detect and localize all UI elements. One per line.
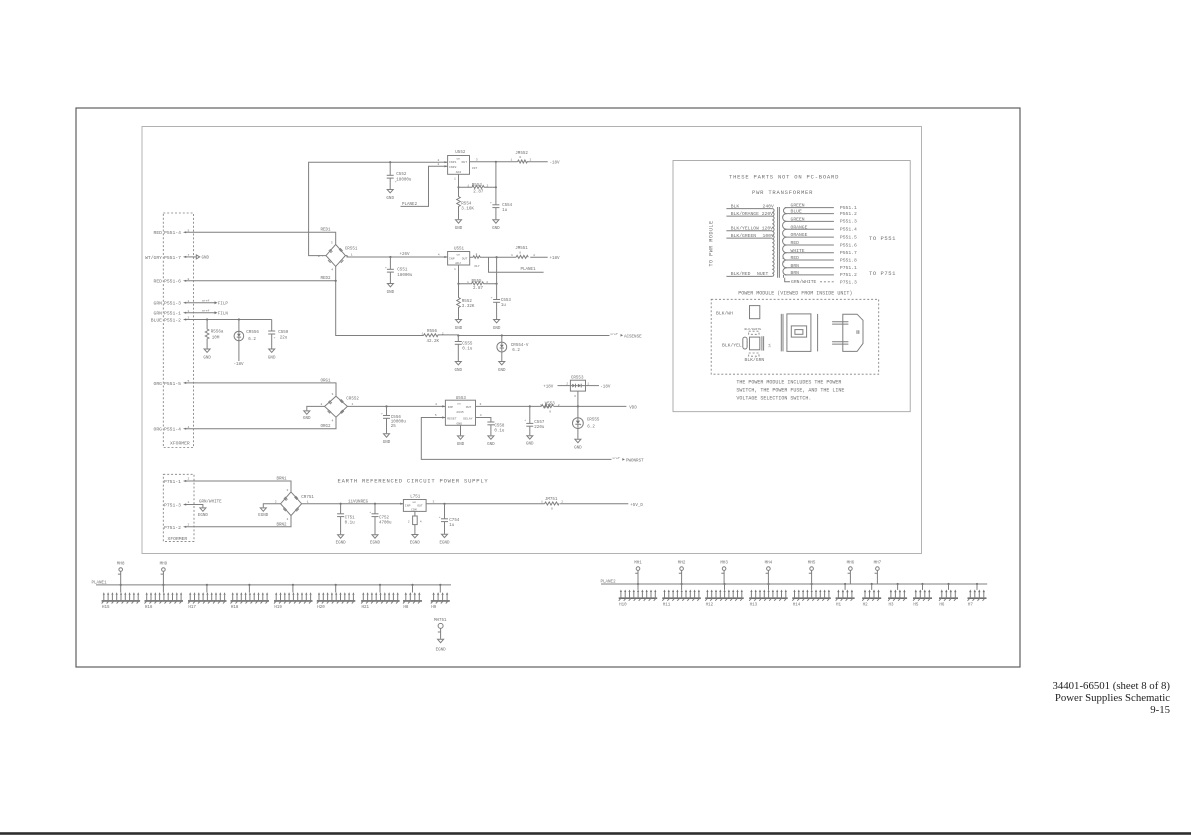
svg-text:2: 2 [486, 280, 488, 284]
svg-text:3: 3 [476, 157, 478, 161]
wire RED2 [183, 277, 336, 282]
svg-text:1: 1 [540, 403, 542, 407]
svg-text:GND: GND [386, 197, 394, 201]
svg-text:C751: C751 [345, 517, 356, 521]
svg-text:GND: GND [203, 357, 211, 361]
svg-text:MH6: MH6 [847, 562, 855, 566]
hole array H11 [662, 584, 701, 607]
jumper JM551 0 [511, 247, 548, 259]
svg-text:1: 1 [351, 252, 353, 256]
svg-text:VDD: VDD [629, 407, 637, 411]
footer title block text [1052, 680, 1170, 716]
hole array H16 [145, 585, 184, 610]
ground [526, 436, 534, 447]
svg-text:OUT: OUT [417, 504, 423, 508]
regulator U551 [448, 247, 470, 265]
svg-text:H15: H15 [102, 606, 110, 610]
net -18V out [550, 162, 561, 166]
svg-text:P551.2: P551.2 [840, 211, 857, 217]
net PLANE1 rail [92, 582, 452, 586]
svg-text:2: 2 [188, 315, 190, 319]
svg-text:R556a: R556a [211, 331, 224, 335]
svg-text:COM: COM [411, 508, 417, 512]
svg-text:+: + [439, 515, 441, 519]
svg-text:RESET: RESET [447, 417, 456, 421]
capacitor C559 22u [268, 320, 289, 349]
svg-text:RED2: RED2 [321, 277, 332, 281]
svg-text:+18V: +18V [550, 257, 561, 261]
svg-text:C551: C551 [397, 269, 408, 273]
primary tap BLK/RED NUET [726, 271, 772, 277]
svg-text:H18: H18 [231, 606, 239, 610]
svg-text:+: + [524, 418, 526, 422]
capacitor C554 1u [490, 162, 513, 220]
svg-text:ADJ: ADJ [455, 261, 461, 265]
svg-text:CR554-V: CR554-V [511, 344, 529, 348]
svg-text:un: un [457, 402, 461, 406]
svg-text:P551-6: P551-6 [164, 279, 181, 285]
svg-text:EGND: EGND [258, 514, 269, 518]
secondary lead RED P551.8 [785, 255, 857, 263]
power switch block [750, 306, 760, 319]
svg-text:EGND: EGND [410, 541, 421, 545]
pin P551-4b label [154, 425, 190, 433]
svg-text:P551.5: P551.5 [840, 234, 857, 240]
ground [268, 349, 276, 361]
svg-text:18000u: 18000u [396, 178, 412, 182]
svg-text:R553: R553 [472, 184, 483, 188]
earth ground [370, 535, 381, 546]
pin P551-5 label [154, 379, 190, 387]
svg-text:R555: R555 [472, 280, 483, 284]
svg-text:C754: C754 [449, 519, 460, 523]
svg-text:RED1: RED1 [321, 229, 332, 233]
svg-text:H6: H6 [939, 603, 945, 607]
module divider left [781, 314, 783, 352]
svg-text:XFORMER: XFORMER [170, 441, 190, 447]
svg-text:0.1u: 0.1u [462, 348, 473, 352]
hole array H2 [862, 584, 881, 607]
hole array H12 [705, 584, 744, 607]
ground [455, 320, 463, 331]
capacitor C557 220u [524, 406, 545, 435]
L751 COM pin component [408, 511, 422, 534]
svg-text:U553: U553 [456, 397, 467, 401]
svg-text:RED: RED [154, 279, 163, 285]
svg-text:U551: U551 [454, 247, 465, 251]
svg-text:+18V: +18V [543, 385, 554, 389]
svg-text:INP: INP [449, 256, 455, 260]
svg-text:1u: 1u [449, 524, 455, 528]
svg-text:4: 4 [480, 413, 482, 417]
svg-text:0: 0 [551, 507, 553, 511]
secondary lead GREEN P551.3 [785, 216, 857, 224]
bridge rectifier CR552 [321, 392, 360, 423]
svg-text:EGND: EGND [336, 541, 347, 545]
svg-text:MH751: MH751 [434, 619, 447, 623]
svg-text:JM751: JM751 [545, 498, 558, 502]
svg-text:3: 3 [331, 240, 333, 244]
power module note text [736, 380, 844, 402]
svg-text:vref: vref [610, 332, 618, 336]
svg-text:H20: H20 [317, 606, 325, 610]
svg-text:1: 1 [467, 184, 469, 188]
svg-text:H1: H1 [836, 603, 842, 607]
svg-text:BLK/YEL: BLK/YEL [722, 343, 742, 349]
ground [498, 362, 506, 373]
secondary lead RED P551.6 [785, 240, 857, 248]
svg-text:CR555: CR555 [587, 419, 600, 423]
mounting hole MH8 [117, 563, 125, 585]
svg-text:FILN: FILN [218, 313, 229, 317]
svg-text:WT/GRY: WT/GRY [145, 255, 162, 261]
zener CR556 6.2 [234, 320, 259, 362]
svg-text:CR552: CR552 [346, 397, 359, 401]
secondary lead BRN P751.2 [785, 270, 857, 278]
wire FILN [183, 308, 228, 316]
svg-text:TO PWR MODULE: TO PWR MODULE [709, 220, 715, 266]
svg-text:H9: H9 [431, 606, 437, 610]
selector side bars [762, 336, 764, 350]
selector capsule [743, 337, 747, 349]
mounting hole MH751 to earth ground [434, 619, 447, 652]
bridge rectifier CR751 [275, 488, 315, 521]
svg-text:6.2: 6.2 [248, 338, 256, 342]
svg-text:1: 1 [467, 280, 469, 284]
wire top rail into U552 [389, 158, 448, 163]
svg-text:MH1: MH1 [634, 562, 642, 566]
svg-text:H7: H7 [968, 603, 974, 607]
ground [457, 436, 465, 447]
hole array H14 [792, 584, 831, 607]
svg-text:BLUE: BLUE [151, 318, 162, 324]
capacitor C752 4700u [369, 504, 392, 535]
svg-text:H2: H2 [863, 603, 869, 607]
svg-text:P751-3: P751-3 [164, 503, 181, 509]
svg-text:EGND: EGND [439, 541, 450, 545]
svg-text:P751.3: P751.3 [840, 280, 857, 286]
svg-text:-18V: -18V [234, 363, 245, 367]
wire to chassis GND arrow [183, 255, 210, 261]
pin P551-1 label [154, 309, 190, 317]
net +18V out [550, 257, 561, 261]
svg-text:P551-4: P551-4 [164, 427, 181, 433]
svg-text:OUT: OUT [462, 256, 468, 260]
secondary winding [783, 208, 787, 278]
jumper JM751 0 [541, 498, 628, 510]
svg-text:ACSENSE: ACSENSE [624, 335, 642, 339]
wire BRN1 [183, 478, 291, 492]
svg-text:1u: 1u [502, 209, 508, 213]
earth ground [410, 535, 421, 546]
svg-text:GND: GND [457, 422, 463, 426]
svg-text:1: 1 [454, 267, 456, 271]
svg-text:2.87: 2.87 [473, 287, 484, 291]
svg-text:GND: GND [383, 441, 391, 445]
svg-text:L751: L751 [410, 496, 421, 500]
svg-text:+26V: +26V [400, 253, 411, 257]
svg-text:2: 2 [275, 500, 277, 504]
hole array H5 [913, 584, 932, 607]
svg-text:Power Supplies Schematic: Power Supplies Schematic [1055, 692, 1170, 704]
wire bridge plus to U551 INP [345, 253, 447, 258]
net VDD [629, 407, 637, 411]
svg-text:THE POWER MODULE INCLUDES THE: THE POWER MODULE INCLUDES THE POWER [736, 380, 841, 386]
earth ground [439, 534, 450, 545]
transformer T551 heading [709, 189, 814, 266]
primary tap BLK/YELLOW 120V [726, 226, 773, 232]
svg-text:P551.8: P551.8 [840, 257, 857, 263]
svg-text:MH8: MH8 [117, 563, 125, 567]
secondary lead ORANGE P551.4 [785, 224, 857, 232]
svg-text:TO P551: TO P551 [869, 235, 896, 242]
jumper JM552 0 [511, 152, 548, 163]
svg-text:BLK/WHITE: BLK/WHITE [745, 327, 762, 331]
ground [303, 411, 311, 421]
svg-text:INP2: INP2 [449, 165, 457, 169]
svg-text:GND: GND [493, 327, 501, 331]
svg-text:GND: GND [455, 227, 463, 231]
svg-text:GND: GND [457, 443, 465, 447]
svg-text:W553: W553 [545, 403, 556, 407]
svg-text:MH5: MH5 [808, 562, 816, 566]
secondary lead GREEN P551.1 [785, 203, 857, 211]
svg-text:ORG2: ORG2 [321, 425, 332, 429]
svg-text:+5V_D: +5V_D [630, 504, 643, 508]
svg-text:GND: GND [387, 291, 395, 295]
svg-text:0: 0 [519, 155, 521, 159]
svg-text:3.16K: 3.16K [461, 207, 474, 211]
wire BLUE unreg [183, 318, 272, 320]
svg-text:P551-3: P551-3 [164, 301, 181, 307]
wire CR751 minus to EGND [263, 504, 280, 508]
svg-text:GND: GND [487, 443, 495, 447]
svg-text:GRN: GRN [154, 301, 163, 307]
hole array H8 [403, 585, 422, 610]
svg-text:JM551: JM551 [515, 247, 528, 251]
svg-text:MH2: MH2 [678, 562, 686, 566]
earth ground [198, 508, 209, 518]
svg-text:1: 1 [352, 402, 354, 406]
svg-text:2.87: 2.87 [473, 190, 484, 194]
capacitor C754 1u [439, 504, 460, 534]
svg-text:H12: H12 [706, 603, 714, 607]
svg-text:R552: R552 [462, 300, 473, 304]
svg-text:C552: C552 [396, 173, 407, 177]
svg-text:2935: 2935 [456, 410, 464, 414]
net PLANE1 tap [489, 257, 544, 272]
svg-text:POWER MODULE (VIEWED FROM INSI: POWER MODULE (VIEWED FROM INSIDE UNIT) [738, 290, 852, 296]
wire U552 OUT [470, 157, 518, 169]
svg-text:wref: wref [202, 308, 210, 312]
wire U553 RESET feedback PWONRST [421, 413, 644, 463]
svg-text:0: 0 [549, 409, 551, 413]
svg-text:P551-5: P551-5 [164, 381, 181, 387]
svg-text:18000u: 18000u [397, 274, 413, 278]
svg-text:4: 4 [438, 253, 440, 257]
power module outline [711, 299, 879, 374]
svg-text:P551.3: P551.3 [840, 219, 857, 225]
wire U552 ADJ [454, 174, 460, 188]
connector P751 (transformer secondary) [163, 474, 194, 542]
resistor R555 2.87 [459, 280, 498, 291]
svg-text:CR556: CR556 [246, 331, 259, 335]
svg-text:P551-4: P551-4 [164, 230, 181, 236]
ground [383, 434, 391, 445]
svg-text:MH7: MH7 [874, 562, 882, 566]
svg-text:2: 2 [558, 403, 560, 407]
zener CR554 6.2 [497, 336, 529, 362]
secondary lead BRN P751.1 [785, 263, 857, 271]
svg-text:H13: H13 [750, 603, 758, 607]
power module caption [738, 290, 852, 296]
svg-text:H14: H14 [793, 603, 801, 607]
svg-text:5: 5 [435, 413, 437, 417]
svg-text:10000u: 10000u [391, 420, 407, 424]
svg-text:JM552: JM552 [515, 152, 528, 156]
svg-text:3.32K: 3.32K [462, 305, 475, 309]
svg-text:+: + [381, 412, 383, 416]
svg-text:OUT: OUT [462, 160, 468, 164]
secondary lead ORANGE P551.5 [785, 232, 857, 240]
svg-text:2: 2 [530, 158, 532, 162]
capacitor C555 0.1u [455, 336, 473, 362]
svg-text:H11: H11 [663, 603, 671, 607]
wire FILP [183, 298, 228, 306]
svg-text:H10: H10 [619, 603, 627, 607]
svg-text:9-15: 9-15 [1150, 704, 1170, 716]
svg-text:GND: GND [202, 257, 210, 261]
svg-text:1: 1 [511, 158, 513, 162]
resistor R556 42.2K [422, 330, 459, 344]
svg-text:1: 1 [188, 500, 190, 504]
mounting hole MH9 [160, 563, 168, 585]
pin P751-1 label [164, 477, 190, 485]
svg-text:2: 2 [533, 253, 535, 257]
svg-text:GND: GND [455, 369, 463, 373]
pin P551-4 label [154, 229, 190, 237]
svg-text:2: 2 [476, 252, 478, 256]
IEC line connector [832, 314, 863, 351]
svg-text:P551-7: P551-7 [164, 255, 181, 261]
svg-text:TO P751: TO P751 [869, 270, 896, 277]
svg-text:H16: H16 [145, 606, 153, 610]
svg-text:P551.4: P551.4 [840, 227, 857, 233]
svg-text:BRN2: BRN2 [277, 523, 288, 527]
svg-text:MH9: MH9 [160, 563, 168, 567]
transformer core [778, 207, 780, 278]
svg-text:PWONRST: PWONRST [626, 459, 644, 463]
svg-text:10M: 10M [212, 337, 220, 341]
wire BRN2 [183, 516, 291, 528]
svg-text:1: 1 [587, 381, 589, 385]
svg-text:vref: vref [612, 456, 620, 460]
svg-text:THESE PARTS NOT ON PC-BOARD: THESE PARTS NOT ON PC-BOARD [729, 174, 839, 181]
ground [455, 362, 463, 373]
label BLK/WH [716, 311, 733, 317]
svg-text:337: 337 [472, 166, 478, 170]
svg-text:1u: 1u [501, 304, 507, 308]
wire CR552 plus to U553 [347, 402, 445, 407]
ground [574, 439, 582, 450]
earth ground [258, 508, 269, 518]
svg-text:4: 4 [420, 520, 422, 524]
svg-text:+: + [490, 201, 492, 205]
svg-text:GRN/WHITE: GRN/WHITE [199, 500, 222, 505]
wire L751 OUT [426, 500, 544, 505]
wire bridge minus to top rail [309, 162, 440, 255]
selector contact upper [749, 331, 759, 334]
svg-text:2: 2 [408, 520, 410, 524]
wire CR552 minus to GND [307, 406, 325, 410]
svg-text:CR551: CR551 [345, 247, 358, 251]
svg-text:INP1: INP1 [449, 160, 457, 164]
svg-text:MH3: MH3 [720, 562, 728, 566]
svg-text:SWITCH, THE POWER FUSE, AND TH: SWITCH, THE POWER FUSE, AND THE LINE [736, 387, 844, 393]
net +5V_D [630, 504, 643, 508]
svg-text:RED: RED [154, 230, 163, 236]
mounting hole MH7 [874, 562, 882, 584]
svg-text:GND: GND [526, 443, 534, 447]
wire U551 OUT [470, 252, 516, 268]
svg-text:2: 2 [561, 500, 563, 504]
net PLANE2 rail [601, 581, 988, 585]
svg-text:P551.1: P551.1 [840, 205, 857, 211]
primary tap BLK/GREEN 100V [726, 233, 774, 239]
pin P551-7 label [145, 253, 189, 261]
svg-text:1: 1 [307, 500, 309, 504]
regulator U553 [445, 397, 475, 426]
svg-text:1: 1 [454, 176, 456, 180]
hole array H15 [102, 585, 141, 610]
svg-text:6.2: 6.2 [512, 349, 520, 353]
capacitor C552 18000u [387, 162, 412, 189]
primary winding [772, 209, 774, 277]
wire 11V unreg to L751 [302, 501, 404, 505]
svg-text:BRN1: BRN1 [277, 478, 288, 482]
hole array H13 [749, 584, 788, 607]
earth ground [336, 535, 347, 546]
svg-text:P751.1: P751.1 [840, 265, 857, 271]
svg-text:XFORMER: XFORMER [168, 536, 188, 542]
svg-text:+: + [385, 265, 387, 269]
svg-text:C555: C555 [462, 343, 473, 347]
selector contact lower [749, 353, 759, 356]
svg-text:FILP: FILP [218, 303, 229, 307]
hole array H3 [888, 584, 907, 607]
svg-text:OUT: OUT [466, 405, 472, 409]
svg-text:VOLTAGE SELECTION SWITCH.: VOLTAGE SELECTION SWITCH. [736, 395, 811, 401]
svg-text:25: 25 [391, 425, 397, 429]
secondary lead GRN/WHITE P751.3 [785, 278, 857, 286]
ground [487, 436, 495, 447]
svg-text:0: 0 [519, 250, 521, 254]
ground [387, 284, 395, 295]
svg-text:ORG: ORG [154, 381, 163, 387]
svg-text:GRN: GRN [154, 311, 163, 317]
svg-text:4: 4 [331, 268, 333, 272]
svg-text:2: 2 [435, 402, 437, 406]
pin P551-2 label [151, 315, 190, 323]
svg-text:INP: INP [405, 504, 411, 508]
svg-text:2: 2 [487, 184, 489, 188]
svg-text:H8: H8 [403, 606, 409, 610]
ground [492, 220, 500, 231]
box THESE PARTS NOT ON PC-BOARD [673, 161, 910, 412]
resistor R553 2.87 [459, 184, 498, 195]
hole array H21 [361, 585, 400, 610]
svg-text:DELAY: DELAY [463, 417, 472, 421]
